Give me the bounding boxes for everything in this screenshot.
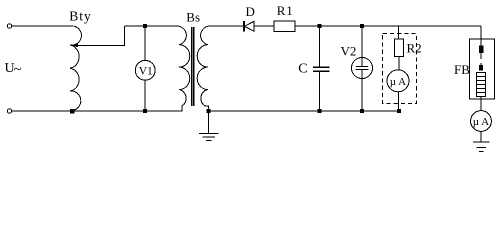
wire (bottom rail secondary to R2 branch) (209, 110, 400, 112)
wire (bottom-left rail) (12, 106, 182, 111)
microammeter uA (in dashed box) (387, 70, 409, 92)
svg-text:~: ~ (14, 62, 22, 78)
voltmeter V1 (135, 60, 155, 80)
svg-text:R1: R1 (277, 3, 294, 18)
node (C bottom junction) (317, 109, 321, 113)
wire (secondary top to diode) (211, 25, 244, 27)
svg-text:C: C (298, 62, 307, 77)
transformer Bs primary winding (177, 26, 190, 106)
node (V2 top junction) (360, 24, 364, 28)
wire (top rail wiper to Bs primary) (124, 25, 176, 27)
transformer Bs core (191, 27, 193, 106)
wire (top rail corner down to FB) (480, 26, 482, 39)
wire (R1 to top rail junctions) (295, 25, 481, 27)
transformer Bs secondary winding (197, 26, 210, 111)
FB electrode bead 2 (479, 65, 483, 71)
wire (V1 bottom lead) (144, 80, 146, 111)
ground (below Bs secondary) (208, 111, 210, 133)
wire (V2 top lead) (361, 26, 363, 58)
wiper arrow of Bty (71, 43, 79, 47)
voltmeter V2 (electrostatic) (352, 58, 373, 79)
node (bottom rail end junction) (397, 109, 401, 113)
wire (R2 to microammeter) (398, 57, 400, 71)
node (V2 bottom junction) (360, 109, 364, 113)
capacitor C (313, 66, 330, 68)
wire (FB to microammeter 2) (480, 97, 482, 111)
svg-text:V1: V1 (139, 66, 153, 78)
FB internal stub above bead2 (480, 63, 482, 65)
svg-text:FB: FB (454, 62, 470, 77)
dashed box (R2 + uA) (383, 34, 417, 104)
svg-text:D: D (246, 4, 255, 19)
node (secondary bottom junction) (206, 109, 210, 113)
node (C top junction) (317, 24, 321, 28)
node (V1 top junction) (143, 24, 147, 28)
svg-text:Bs: Bs (186, 10, 200, 25)
wire (R2 branch top lead) (398, 26, 400, 39)
terminal (input top) (7, 24, 11, 28)
wire (V1 top lead) (144, 26, 146, 61)
wire (top-left rail to Bty) (12, 25, 73, 27)
resistor R2 (394, 39, 403, 57)
wire (V2 bottom lead) (361, 79, 363, 112)
wire (microammeter to bottom rail) (398, 92, 400, 111)
svg-text:µA: µA (390, 76, 408, 88)
FB electrode bead 1 (479, 46, 483, 54)
wire (C bottom lead) (319, 72, 321, 112)
FB internal lead below bead1 (480, 53, 482, 59)
divider FB box (470, 39, 495, 99)
node (Bty bottom junction) (70, 109, 74, 113)
ground (below microammeter 2) (473, 141, 490, 143)
microammeter uA 2 (471, 111, 492, 132)
svg-text:µA: µA (473, 116, 491, 128)
wire (microammeter 2 to ground) (480, 131, 482, 142)
wire (wiper step up to top rail) (78, 26, 125, 45)
FB winding stack (477, 73, 486, 97)
FB internal top lead (480, 39, 482, 46)
wire (diode to R1) (254, 25, 274, 27)
svg-text:Bty: Bty (69, 9, 92, 24)
autotransformer Bty winding (70, 26, 81, 111)
svg-text:V2: V2 (341, 44, 357, 59)
resistor R1 (274, 21, 295, 32)
wire (C top lead) (319, 26, 321, 67)
svg-text:R2: R2 (407, 41, 422, 56)
diode D (243, 21, 245, 32)
node (V1 bottom junction) (143, 109, 147, 113)
terminal (input bottom) (7, 109, 11, 113)
